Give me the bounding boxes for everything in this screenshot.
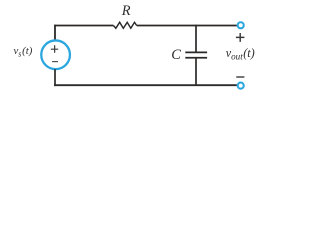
capacitor bottom plate [185,57,207,59]
terminal top-right [238,22,244,28]
capacitor top lead [195,25,197,53]
svg-text:R: R [121,3,131,19]
minus sign at output [236,76,244,78]
wire bottom [54,84,237,86]
resistor R zigzag [113,22,136,28]
wire left vertical top stub [54,25,56,41]
plus sign inside source [51,45,58,53]
voltage source circle [41,40,70,69]
svg-text:C: C [171,47,181,63]
svg-text:vout(t): vout(t) [226,46,255,62]
svg-text:vs(t): vs(t) [14,45,33,58]
terminal bottom-right [238,83,244,89]
wire top: resistor to terminal [137,25,237,27]
wire left vertical bottom stub [54,69,56,86]
capacitor bottom lead [195,58,197,86]
wire top: corner to resistor [54,25,113,27]
plus sign at output [236,33,245,42]
minus sign inside source [52,61,58,63]
capacitor top plate [185,51,207,53]
